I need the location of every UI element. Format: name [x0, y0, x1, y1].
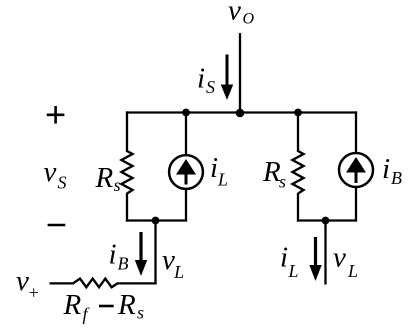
svg-text:+: +: [28, 283, 40, 303]
wire: right cell left branch lower segment: [297, 193, 299, 222]
label Rf - Rs: [63, 289, 145, 324]
label Rs (right cell): [262, 156, 286, 192]
wire: left cell left branch lower segment: [126, 193, 128, 222]
svg-text:O: O: [243, 11, 255, 28]
wire: right cell bottom: [297, 219, 357, 221]
svg-text:i: i: [280, 242, 288, 274]
wire: output lead from vO down to top bus: [239, 33, 241, 114]
label v+: [16, 265, 40, 303]
resistor Rf-Rs zigzag: [73, 279, 118, 288]
svg-text:R: R: [63, 289, 82, 321]
wire: node vL left tail vertical: [154, 219, 156, 284]
junction node dot right cell bottom (vL): [322, 217, 330, 225]
current source U2 circle (iB, right cell): [339, 153, 373, 187]
resistor Rs (left cell) zigzag: [122, 151, 133, 194]
arrow iS (current into node, down): [221, 55, 233, 101]
wire: right cell left branch upper segment: [297, 111, 299, 152]
svg-text:i: i: [109, 239, 117, 271]
svg-text:v: v: [333, 242, 346, 274]
svg-text:S: S: [206, 77, 215, 97]
label vL (bottom left): [162, 244, 184, 282]
resistor Rs (right cell) zigzag: [293, 151, 304, 194]
wire: left current source top lead: [185, 111, 187, 155]
label iL (bottom right): [280, 242, 299, 282]
label iB (bottom left): [109, 239, 129, 274]
label - (vS polarity): [48, 224, 66, 227]
label + (vS polarity): [47, 106, 65, 124]
junction node dot left cell bottom (vL): [152, 217, 160, 225]
wire: right current source top lead: [355, 111, 357, 153]
svg-text:i: i: [210, 152, 218, 184]
label iB (right current source): [382, 153, 402, 188]
label Rs (left cell): [95, 162, 121, 195]
svg-text:L: L: [217, 170, 228, 190]
svg-text:R: R: [117, 289, 136, 321]
label vS: [44, 156, 67, 193]
wire: bottom-left horizontal lead from v+: [50, 282, 75, 284]
svg-text:v: v: [228, 0, 241, 27]
svg-text:L: L: [173, 262, 184, 282]
wire: left cell bottom: [126, 219, 187, 221]
svg-text:L: L: [288, 261, 299, 281]
current source U1 circle (iL, left cell): [169, 155, 203, 189]
wire: left current source bottom lead: [185, 189, 187, 222]
wire: top horizontal bus: [126, 111, 357, 113]
svg-text:R: R: [95, 162, 114, 194]
wire: left cell left branch upper segment: [126, 111, 128, 152]
svg-text:B: B: [118, 254, 129, 274]
junction node dot on bus at left current source: [182, 109, 190, 117]
svg-text:s: s: [279, 172, 286, 192]
label vO: [228, 0, 255, 28]
wire: node vL right tail vertical: [324, 219, 326, 284]
svg-text:s: s: [137, 303, 144, 323]
arrow inside left current source (up): [176, 159, 196, 185]
arrow iB (bottom left, down): [135, 232, 147, 276]
svg-text:S: S: [58, 173, 67, 193]
junction node dot on bus at vO lead: [236, 109, 245, 118]
svg-text:i: i: [382, 153, 390, 185]
wire: right current source bottom lead: [355, 187, 357, 222]
svg-text:L: L: [347, 261, 358, 281]
label iL (left current source): [210, 152, 228, 190]
wire: bottom-left horizontal lead right of Rf-Rs: [117, 282, 157, 284]
svg-text:f: f: [83, 304, 91, 324]
label vL (bottom right): [333, 242, 358, 282]
svg-text:i: i: [197, 63, 205, 95]
svg-text:v: v: [162, 244, 175, 276]
svg-text:B: B: [391, 168, 402, 188]
svg-text:v: v: [44, 156, 57, 188]
arrow iL (bottom right, down): [309, 237, 321, 281]
svg-text:s: s: [114, 175, 121, 195]
arrow inside right current source (up): [346, 157, 366, 183]
label iS: [197, 63, 215, 98]
junction node dot on bus at right Rs: [294, 109, 302, 117]
